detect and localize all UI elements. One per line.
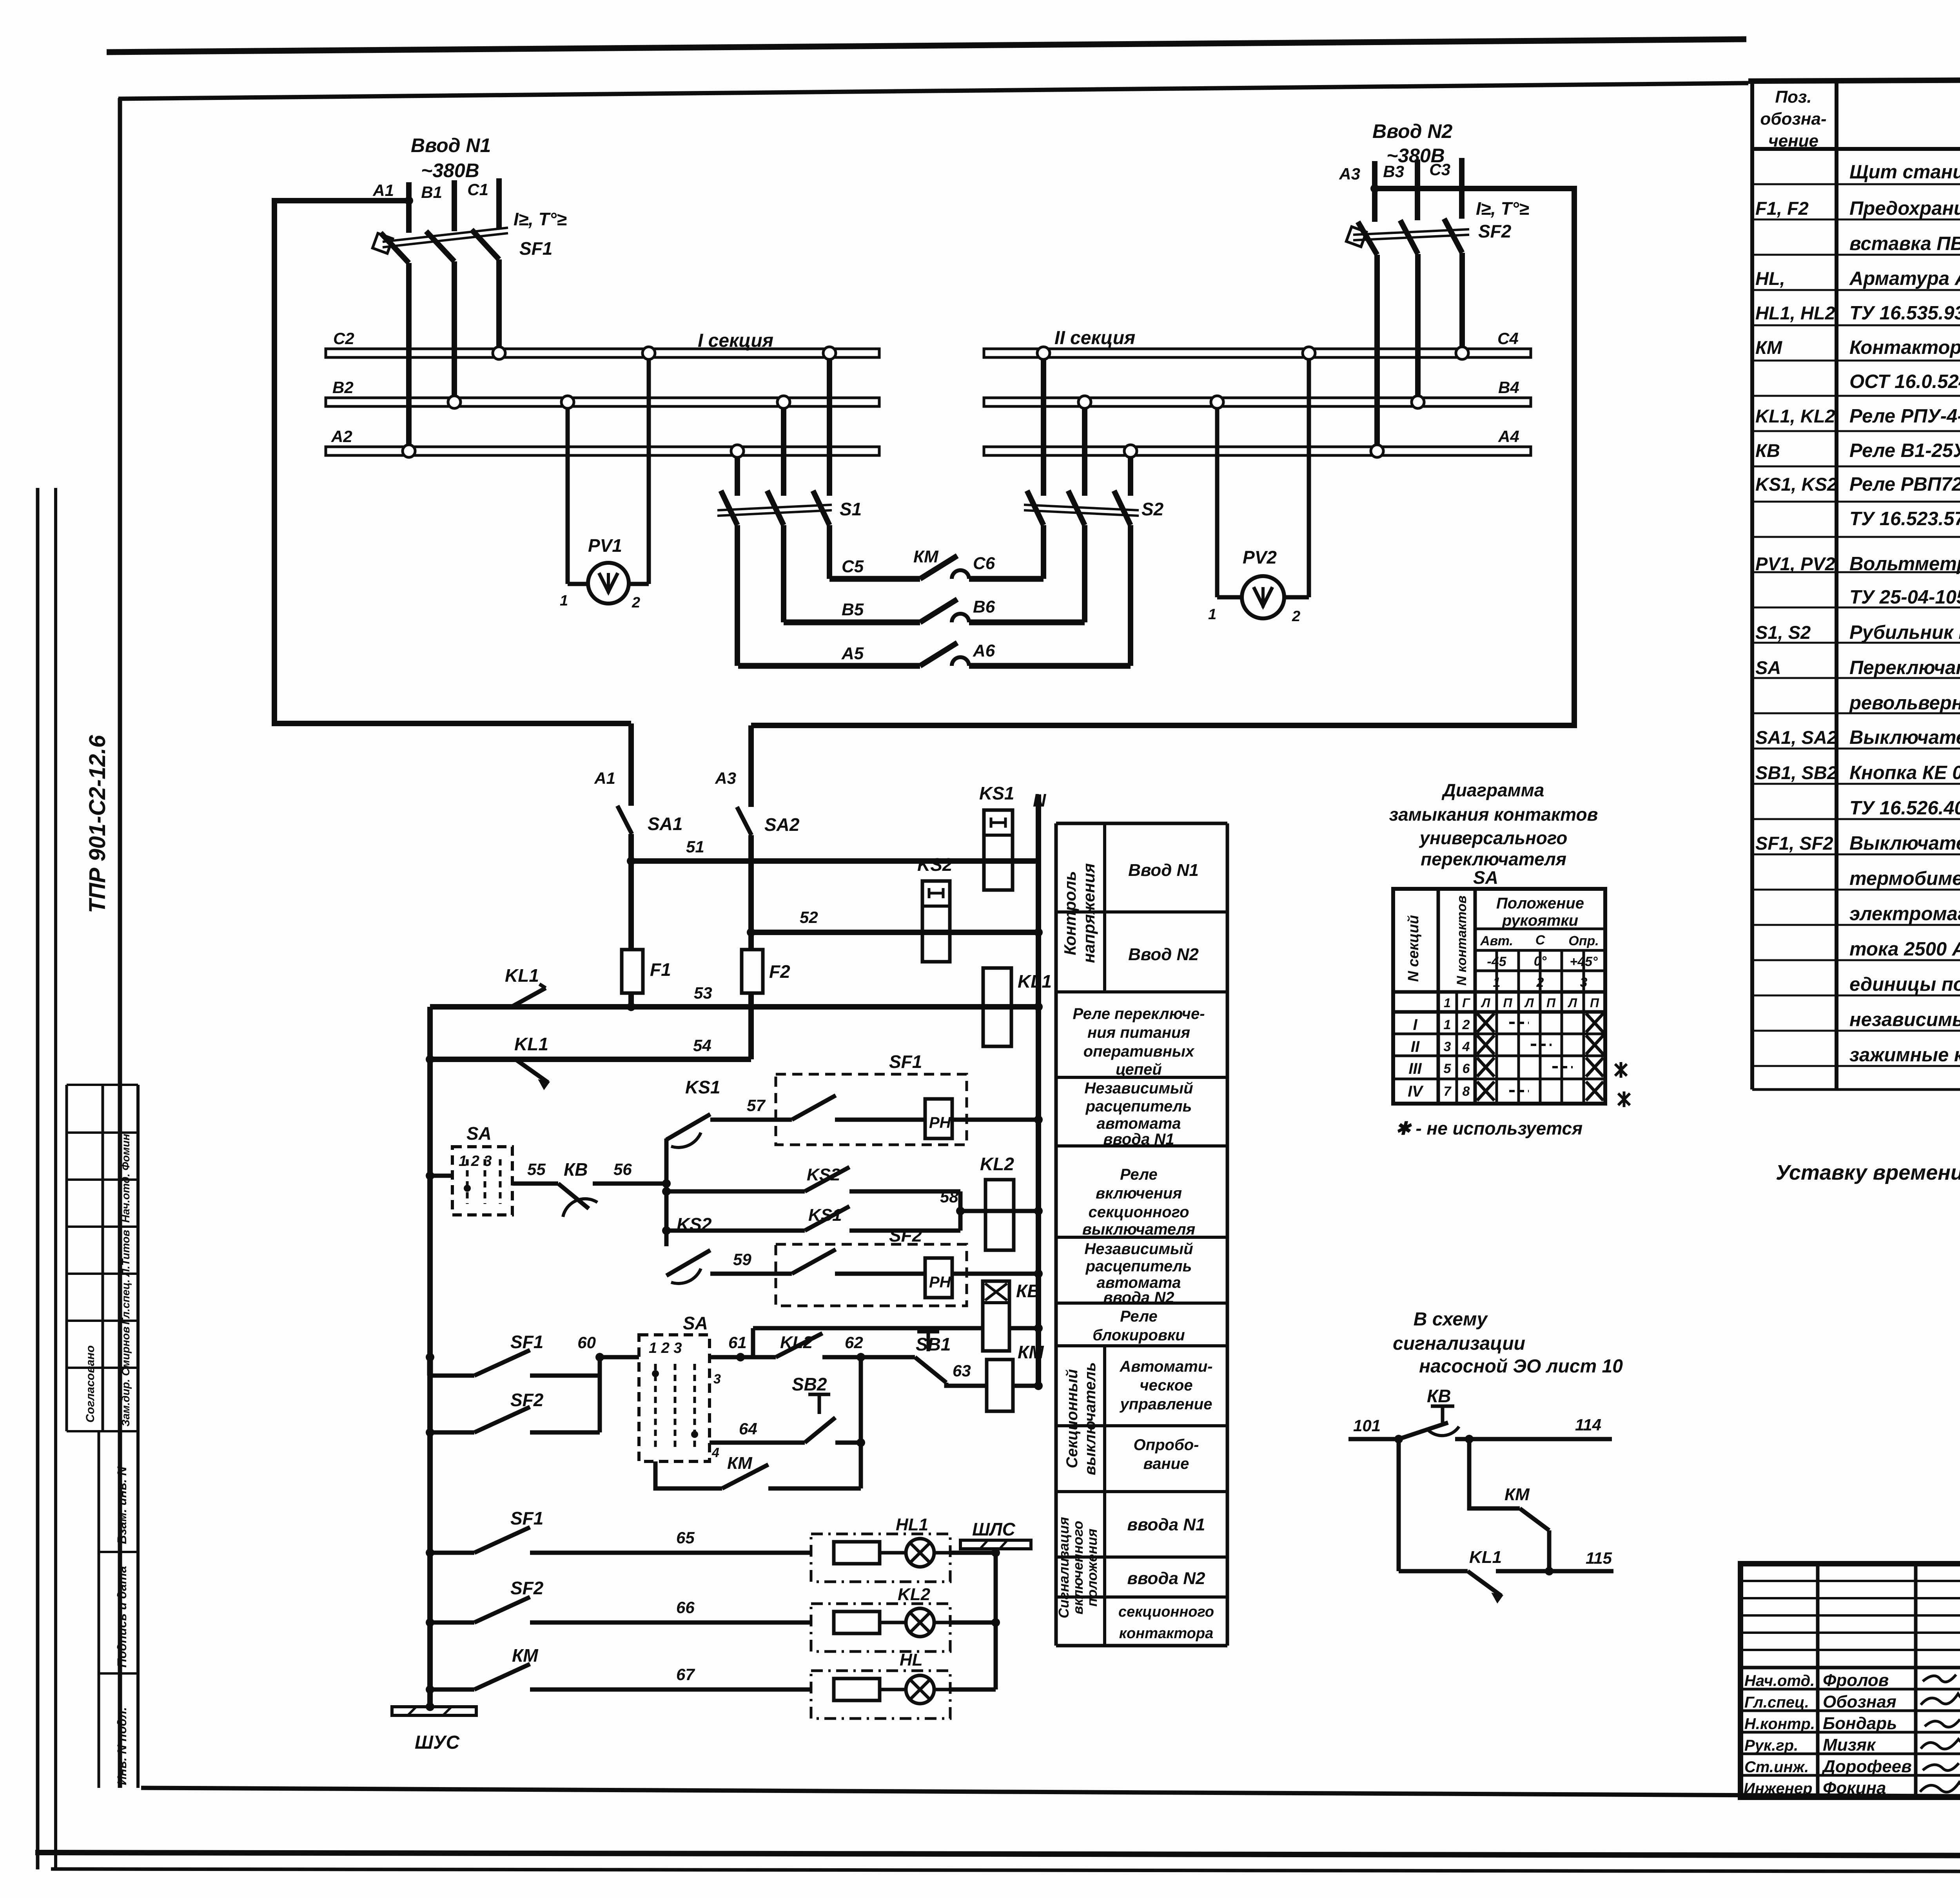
wire S1 pole outputs	[737, 525, 829, 666]
svg-text:РН: РН	[929, 1274, 951, 1291]
left margin small stamp table	[67, 1085, 138, 1788]
svg-text:секционного: секционного	[1088, 1204, 1189, 1221]
svg-text:электромагнитный расцепитель и: электромагнитный расцепитель и уставка	[1849, 903, 1960, 925]
svg-text:SA2: SA2	[764, 814, 800, 835]
svg-text:7: 7	[1444, 1084, 1452, 1099]
busbar B4 section II	[984, 378, 1531, 406]
svg-text:ввода N1: ввода N1	[1103, 1131, 1174, 1148]
svg-text:Диаграмма: Диаграмма	[1441, 780, 1544, 800]
title block outer box	[1740, 1564, 1960, 1797]
svg-text:HL: HL	[900, 1650, 923, 1670]
rotated label Сигнализация включенного положения	[1056, 1517, 1100, 1619]
svg-text:62: 62	[845, 1333, 863, 1352]
svg-text:3: 3	[1580, 975, 1588, 990]
function table row lines	[1056, 912, 1227, 1597]
svg-text:Автомати-: Автомати-	[1119, 1358, 1212, 1375]
svg-text:SB2: SB2	[792, 1374, 827, 1394]
svg-text:оперативных: оперативных	[1083, 1043, 1195, 1060]
svg-text:SA: SA	[1755, 657, 1781, 678]
svg-text:III: III	[1408, 1060, 1422, 1077]
svg-text:4: 4	[1462, 1039, 1470, 1054]
svg-text:А5: А5	[841, 644, 864, 663]
svg-text:Нач.отд.: Нач.отд.	[1744, 1672, 1815, 1690]
control bus ShUS	[392, 1702, 476, 1753]
wire SA2 to node 52 and fuse F2	[747, 835, 755, 950]
rung 65: contact SF1 to lamp HL1	[426, 1508, 811, 1557]
svg-text:ния питания: ния питания	[1087, 1024, 1190, 1041]
svg-text:S2: S2	[1142, 499, 1164, 519]
svg-text:SA1, SA2: SA1, SA2	[1755, 727, 1837, 748]
title block signatures squiggles	[1920, 1675, 1960, 1792]
selector switch SA block (lower)	[639, 1313, 721, 1461]
cell Ввод N1	[1128, 861, 1199, 880]
svg-text:F2: F2	[769, 961, 790, 982]
svg-text:KL1: KL1	[514, 1034, 548, 1054]
svg-text:Щит станций управления щсу: Щит станций управления щсу	[1849, 161, 1960, 183]
cell Опробование	[1134, 1436, 1199, 1472]
svg-text:SF2: SF2	[889, 1225, 922, 1245]
svg-text:I≥, Т°≥: I≥, Т°≥	[514, 209, 566, 229]
svg-text:SF1: SF1	[889, 1051, 922, 1072]
svg-text:Авт.: Авт.	[1480, 934, 1513, 948]
svg-text:Независимый: Независимый	[1084, 1080, 1193, 1097]
svg-text:II секция: II секция	[1054, 328, 1135, 348]
fuse F2	[742, 950, 790, 993]
left rail of ladder	[427, 1007, 433, 1707]
svg-text:KS2: KS2	[917, 854, 953, 875]
svg-text:рукоятки: рукоятки	[1502, 912, 1578, 929]
svg-text:KS2: KS2	[677, 1214, 712, 1235]
svg-text:КМ: КМ	[913, 547, 939, 566]
bridge rung B5-B6 with contactor KM pole	[784, 597, 1085, 622]
svg-text:цепей: цепей	[1116, 1061, 1162, 1078]
busbar A2 section I	[326, 427, 879, 455]
border: inner frame bottom line	[141, 1788, 1960, 1799]
svg-text:универсального: универсального	[1419, 828, 1568, 848]
relay coil KL1	[983, 968, 1052, 1046]
svg-text:ческое: ческое	[1140, 1377, 1192, 1394]
cell секционного контактора	[1118, 1604, 1214, 1642]
svg-text:KL1, KL2: KL1, KL2	[1755, 406, 1835, 426]
SA diagram footnote	[1396, 1118, 1583, 1138]
svg-text:А1: А1	[594, 769, 615, 787]
label Ввод N1 ~380В	[411, 134, 491, 181]
svg-text:59: 59	[733, 1250, 751, 1269]
switch SA2	[737, 807, 800, 835]
svg-text:PV1: PV1	[588, 535, 622, 556]
contact KL1 in signal circuit with node 115	[1399, 1548, 1613, 1601]
svg-text:SF2: SF2	[510, 1390, 544, 1410]
svg-text:58: 58	[940, 1187, 958, 1206]
svg-text:С3: С3	[1429, 160, 1450, 179]
wire phase A1 input	[372, 181, 409, 233]
svg-text:Реле: Реле	[1120, 1308, 1158, 1325]
SA diagram verticals	[1438, 889, 1584, 1104]
svg-text:А2: А2	[331, 427, 352, 446]
wire SF1 pole C to busbar C2	[496, 259, 502, 353]
rung 55-56 with time contact KB	[512, 1159, 671, 1217]
svg-text:56: 56	[613, 1160, 632, 1178]
svg-text:KL1: KL1	[1469, 1548, 1502, 1567]
svg-text:Независимый: Независимый	[1084, 1240, 1193, 1258]
parts table outer and column lines	[1748, 78, 1960, 1089]
SA diagram header Положение рукоятки	[1496, 895, 1584, 929]
svg-text:60: 60	[577, 1333, 596, 1352]
svg-text:KS1, KS2: KS1, KS2	[1755, 474, 1837, 495]
lamp module HL (resistor and lamp)	[811, 1650, 996, 1719]
cell Реле включения секционного выключателя	[1082, 1166, 1195, 1238]
wire phase C1 input	[467, 178, 499, 230]
svg-text:Ввод N2: Ввод N2	[1372, 120, 1453, 142]
svg-text:расцепитель: расцепитель	[1085, 1098, 1192, 1115]
svg-text:КМ: КМ	[512, 1645, 539, 1666]
svg-text:Реле В1-25У4, 220В, 50Гц, ТУ 1: Реле В1-25У4, 220В, 50Гц, ТУ 16.523.523-…	[1849, 440, 1960, 461]
wire phase B3 input	[1383, 160, 1417, 220]
svg-text:тока 2500 А, дополнительные с: тока 2500 А, дополнительные сборочные	[1849, 939, 1960, 960]
wire SA2 feed drop	[715, 725, 751, 807]
svg-text:Рубильник Р11-37320-00УЗ ТУ16: Рубильник Р11-37320-00УЗ ТУ16.525.005-74	[1849, 622, 1960, 643]
wire SA to node 61 and contact KL2	[710, 1333, 747, 1361]
svg-text:включенного: включенного	[1070, 1521, 1086, 1615]
svg-text:+45°: +45°	[1570, 954, 1598, 969]
svg-text:SA: SA	[683, 1313, 708, 1333]
svg-text:Уставку времени реле КВ, KS1,: Уставку времени реле КВ, KS1, KS2 принят…	[1776, 1161, 1960, 1184]
svg-text:101: 101	[1353, 1416, 1381, 1435]
svg-text:Фролов: Фролов	[1823, 1671, 1889, 1690]
wire phase C3 input	[1429, 158, 1462, 219]
contact KB in signal circuit	[1399, 1386, 1459, 1439]
wire branch down-left from node 101	[1397, 1439, 1401, 1571]
svg-text:выключателя: выключателя	[1082, 1221, 1195, 1238]
svg-text:Нач.отд. Фомин: Нач.отд. Фомин	[120, 1134, 132, 1223]
svg-text:KS1: KS1	[685, 1077, 720, 1097]
parallel contact KS1 to node 58	[662, 1206, 960, 1235]
node 58 and relay KL2	[940, 1187, 1043, 1231]
svg-text:SF1: SF1	[510, 1508, 543, 1528]
contact KM in signal circuit	[1469, 1439, 1553, 1575]
svg-text:KL1: KL1	[1018, 971, 1052, 992]
function table group dividers	[1103, 823, 1106, 1646]
svg-text:ТУ 16.523.574-74: ТУ 16.523.574-74	[1849, 508, 1960, 529]
cell Независимый расцепитель автомата ввода N2	[1084, 1240, 1193, 1306]
svg-text:Ввод N2: Ввод N2	[1128, 945, 1199, 964]
cell Реле переключения питания оперативных цепей	[1073, 1005, 1205, 1078]
svg-text:Опробо-: Опробо-	[1134, 1436, 1199, 1454]
svg-text:А3: А3	[1339, 165, 1360, 183]
svg-text:В2: В2	[332, 378, 354, 397]
SA diagram rotated headers	[1405, 896, 1469, 986]
svg-text:1 2 3: 1 2 3	[459, 1153, 492, 1169]
svg-text:1: 1	[1493, 975, 1501, 990]
svg-text:Арматура АС 120МУ2; ~220В: Арматура АС 120МУ2; ~220В	[1849, 268, 1960, 289]
border: top outer line	[107, 39, 1746, 52]
svg-text:В3: В3	[1383, 162, 1404, 181]
contact KL2 on rung 61-62	[740, 1333, 865, 1361]
dashed box SF2 with release coil RN	[776, 1225, 967, 1306]
svg-text:Л: Л	[1568, 996, 1577, 1010]
svg-text:выключатель: выключатель	[1082, 1362, 1099, 1476]
svg-text:2: 2	[632, 595, 640, 611]
svg-text:А3: А3	[715, 769, 736, 787]
cell Независимый расцепитель автомата ввода N1	[1084, 1080, 1193, 1148]
parts table content rows	[1755, 161, 1960, 1066]
svg-text:SA: SA	[1473, 867, 1498, 888]
svg-text:КВ: КВ	[564, 1159, 588, 1180]
svg-text:ТПР 901-С2-12.6: ТПР 901-С2-12.6	[85, 735, 110, 913]
circuit breaker SF2	[1346, 198, 1529, 255]
svg-text:секционного: секционного	[1118, 1604, 1214, 1620]
svg-text:IV: IV	[1408, 1083, 1424, 1100]
svg-text:Инв. N подл.: Инв. N подл.	[115, 1707, 129, 1785]
svg-text:115: 115	[1586, 1549, 1612, 1567]
svg-text:расцепитель: расцепитель	[1085, 1258, 1192, 1275]
wire right feed loop from A3 to ladder	[751, 184, 1574, 725]
svg-text:С6: С6	[973, 554, 995, 573]
svg-text:KS1: KS1	[979, 783, 1014, 803]
lamp module HL2 (resistor and lamp)	[811, 1585, 996, 1651]
voltmeter PV1 with leads	[560, 347, 655, 611]
contactor coil KM	[987, 1342, 1044, 1411]
cell ввода N1 (signal)	[1127, 1515, 1205, 1534]
label I секция	[698, 330, 773, 351]
svg-text:А6: А6	[973, 641, 995, 660]
svg-text:термобиметаллический расцепите: термобиметаллический расцепитель 368А	[1849, 868, 1960, 889]
bridge rung A5-A6 with contactor KM pole	[738, 641, 1131, 666]
svg-text:II: II	[1411, 1038, 1420, 1055]
knife switch S2	[1024, 347, 1164, 525]
SA diagram row I	[1413, 1013, 1603, 1033]
svg-text:замыкания контактов: замыкания контактов	[1389, 804, 1598, 825]
border: inner frame left vertical	[118, 98, 122, 1788]
signal bus ShLS	[960, 1519, 1031, 1553]
busbar C4 section II	[984, 329, 1531, 357]
wire S2 pole outputs	[1044, 525, 1131, 666]
svg-text:Согласовано: Согласовано	[84, 1345, 97, 1423]
svg-text:52: 52	[800, 908, 818, 926]
note: relay time setting text	[1776, 1161, 1960, 1184]
rung 67: contact KM to lamp HL	[426, 1645, 811, 1694]
svg-text:ввода N2: ввода N2	[1103, 1289, 1174, 1306]
svg-text:ввода N2: ввода N2	[1127, 1569, 1205, 1588]
wire SA1 to node 51 and fuse F1	[627, 834, 635, 950]
wire left feed loop from A1 to ladder	[274, 196, 631, 723]
title block thin upper rows	[1740, 1581, 1960, 1650]
svg-text:54: 54	[693, 1036, 711, 1055]
svg-text:SA1: SA1	[648, 814, 682, 834]
node N label and rail	[1033, 790, 1046, 1386]
busbar A4 section II	[984, 427, 1531, 455]
svg-text:Реле РПУ-4-368,220В, 50Гц, ТУ1: Реле РПУ-4-368,220В, 50Гц, ТУ16.523.534-…	[1849, 406, 1960, 427]
svg-text:С1: С1	[467, 180, 488, 199]
svg-text:переключателя: переключателя	[1421, 849, 1566, 869]
rung 57 through breaker SF1 release	[710, 1096, 1043, 1124]
wire SF2 pole A to busbar A4	[1374, 255, 1380, 451]
svg-text:Г: Г	[1462, 996, 1470, 1010]
svg-text:53: 53	[694, 984, 712, 1002]
svg-text:HL1, HL2: HL1, HL2	[1755, 303, 1835, 323]
svg-text:Предохранитель ПРС-20УЗ-П, пла: Предохранитель ПРС-20УЗ-П, плавкая	[1849, 198, 1960, 219]
svg-text:Ввод N1: Ввод N1	[411, 134, 491, 156]
svg-text:Реле переключе-: Реле переключе-	[1073, 1005, 1205, 1022]
svg-text:В6: В6	[973, 597, 995, 616]
SA diagram position headers	[1480, 933, 1599, 990]
svg-text:S1, S2: S1, S2	[1755, 622, 1811, 643]
svg-text:ввода N1: ввода N1	[1127, 1515, 1205, 1534]
parallel contact KS2 to node 58	[662, 1165, 960, 1196]
node 60 junction	[577, 1333, 604, 1432]
svg-text:Л: Л	[1524, 996, 1534, 1010]
svg-text:контактора: контактора	[1119, 1625, 1213, 1642]
svg-text:65: 65	[676, 1528, 695, 1547]
svg-text:Контроль: Контроль	[1061, 871, 1079, 955]
svg-text:SA: SA	[466, 1123, 492, 1144]
border: inner frame top line	[118, 83, 1748, 99]
svg-text:Инженер: Инженер	[1744, 1780, 1812, 1797]
knife switch S1	[717, 347, 862, 525]
wire node 62 vertical	[859, 1357, 863, 1488]
svg-text:KS2: KS2	[807, 1165, 840, 1184]
svg-text:SF2: SF2	[1478, 221, 1512, 241]
svg-text:5: 5	[1444, 1061, 1452, 1076]
contact SF1 aux to node 60	[426, 1332, 600, 1376]
svg-text:F1: F1	[650, 959, 671, 980]
svg-text:Подпись и дата: Подпись и дата	[115, 1566, 129, 1668]
svg-text:револьверного типа, ТУ 16.524: револьверного типа, ТУ 16.524.074-75	[1849, 692, 1960, 714]
SA diagram horizontals	[1393, 929, 1605, 1079]
svg-text:67: 67	[676, 1665, 695, 1684]
rung 51 to relay KS1	[631, 838, 1038, 861]
fuse F1	[622, 950, 671, 993]
SA diagram row II	[1411, 1035, 1603, 1055]
svg-text:КМ: КМ	[727, 1454, 753, 1473]
svg-text:PV2: PV2	[1243, 547, 1277, 567]
holding contact KM rung	[655, 1454, 861, 1488]
changeover time contact KS2 (lower)	[666, 1214, 712, 1283]
svg-text:3: 3	[713, 1372, 721, 1387]
relay coil KL2	[980, 1154, 1014, 1250]
svg-text:I≥, Т°≥: I≥, Т°≥	[1476, 198, 1529, 219]
parts table header texts	[1760, 87, 1960, 150]
svg-text:0°: 0°	[1534, 954, 1547, 969]
svg-text:KL2: KL2	[980, 1154, 1014, 1174]
svg-text:4: 4	[711, 1445, 719, 1460]
relay coil KB (blocking relay)	[753, 1281, 1043, 1357]
svg-text:ТУ 16.526.407-76: ТУ 16.526.407-76	[1849, 798, 1960, 819]
wire phase A3 input	[1339, 161, 1375, 222]
wire SF2 pole B to busbar B4	[1415, 254, 1421, 402]
svg-text:В4: В4	[1498, 378, 1519, 397]
svg-text:вание: вание	[1143, 1455, 1189, 1472]
svg-text:✱ - не используется: ✱ - не используется	[1396, 1118, 1583, 1138]
wire phase B1 input	[421, 180, 454, 231]
wire node 101 to 114	[1348, 1416, 1612, 1443]
svg-text:66: 66	[676, 1598, 695, 1617]
svg-text:Секционный: Секционный	[1063, 1369, 1081, 1468]
svg-text:КМ: КМ	[1018, 1342, 1044, 1362]
svg-text:ТУ 25-04-1058-74: ТУ 25-04-1058-74	[1849, 587, 1960, 608]
svg-text:51: 51	[686, 838, 704, 856]
parts table row lines	[1752, 184, 1960, 1089]
svg-text:Контактор КТ 6043 УЗ , 220В, 2: Контактор КТ 6043 УЗ , 220В, 23,2р	[1849, 337, 1960, 358]
svg-text:Рук.гр.: Рук.гр.	[1744, 1737, 1798, 1754]
contact SF2 aux to node 60	[426, 1390, 600, 1437]
svg-text:PV1, PV2: PV1, PV2	[1755, 553, 1835, 574]
wire SA1 feed drop	[594, 723, 631, 806]
svg-text:1 2 3: 1 2 3	[649, 1340, 682, 1356]
svg-text:КВ: КВ	[1427, 1386, 1451, 1406]
svg-text:ШУС: ШУС	[415, 1732, 460, 1753]
svg-text:8: 8	[1463, 1084, 1470, 1099]
cell Реле блокировки	[1093, 1308, 1185, 1344]
svg-text:63: 63	[953, 1361, 971, 1380]
svg-text:2: 2	[1462, 1017, 1470, 1032]
svg-text:55: 55	[527, 1160, 546, 1178]
svg-text:Зам.дир. Смирнов: Зам.дир. Смирнов	[120, 1327, 132, 1427]
svg-text:А4: А4	[1498, 427, 1519, 446]
svg-text:В5: В5	[842, 600, 864, 619]
svg-text:единицы по черт. N3 приложения: единицы по черт. N3 приложения N6 к ТУ,	[1849, 974, 1960, 995]
svg-text:зажимные колодки N16 ТУ 16.5: зажимные колодки N16 ТУ 16.522.028-74	[1849, 1044, 1960, 1066]
busbar C2 section I	[326, 329, 879, 357]
svg-text:I секция: I секция	[698, 330, 773, 351]
wire SF1 pole A to busbar A2	[406, 263, 412, 451]
rung 66: contact SF2 to lamp HL2	[426, 1578, 811, 1627]
svg-text:вставка ПВД1-16УЗ, ТУ 16.522.: вставка ПВД1-16УЗ, ТУ 16.522.011-74	[1849, 233, 1960, 254]
svg-text:I: I	[1413, 1016, 1417, 1033]
svg-text:включения: включения	[1096, 1185, 1182, 1202]
svg-text:ТУ 16.535.930-76: ТУ 16.535.930-76	[1849, 303, 1960, 324]
svg-text:-45: -45	[1487, 954, 1506, 969]
svg-text:блокировки: блокировки	[1093, 1327, 1185, 1344]
busbar B2 section I	[326, 378, 879, 406]
changeover time contact KS1 (upper)	[666, 1077, 720, 1246]
svg-text:В схему: В схему	[1414, 1309, 1488, 1330]
svg-text:S1: S1	[840, 499, 862, 519]
svg-text:Вольтметр Э377; предел измерен: Вольтметр Э377; предел измерения 0-500В	[1849, 553, 1960, 575]
note to signalling circuit	[1393, 1309, 1623, 1377]
svg-text:KL2: KL2	[898, 1585, 931, 1604]
svg-text:сигнализации: сигнализации	[1393, 1333, 1525, 1354]
svg-text:Н.контр.: Н.контр.	[1744, 1715, 1815, 1733]
svg-text:~380В: ~380В	[421, 160, 479, 181]
svg-text:N секций: N секций	[1405, 915, 1422, 982]
svg-text:Ст.инж.: Ст.инж.	[1744, 1758, 1809, 1776]
svg-text:3: 3	[1444, 1039, 1451, 1054]
svg-text:Сигнализация: Сигнализация	[1056, 1517, 1072, 1619]
svg-text:SB1, SB2: SB1, SB2	[1755, 762, 1837, 783]
svg-text:Взам. инв. N: Взам. инв. N	[115, 1466, 129, 1544]
svg-text:F1, F2: F1, F2	[1755, 198, 1809, 219]
switch SA1	[617, 806, 682, 834]
relay coil KS1 (time relay)	[979, 783, 1014, 890]
svg-text:С2: С2	[333, 329, 354, 348]
svg-text:Переключатель УП5313-С86; рук: Переключатель УП5313-С86; рукоятка	[1849, 657, 1960, 678]
svg-text:Реле РВП72-3222-00У4, ~220В,50: Реле РВП72-3222-00У4, ~220В,50Гц	[1849, 474, 1960, 495]
bridge rung C5-C6 with contactor KM pole	[829, 547, 1044, 579]
svg-text:Дорофеев: Дорофеев	[1821, 1757, 1912, 1776]
svg-text:независимый расцепитель 220В,: независимый расцепитель 220В, 50Гц,	[1849, 1009, 1960, 1030]
voltmeter PV2 with leads	[1208, 347, 1315, 625]
selector switch SA block (upper)	[426, 1123, 512, 1215]
circuit breaker SF1	[372, 209, 566, 263]
svg-text:Поз.: Поз.	[1775, 87, 1811, 107]
cell Ввод N2	[1128, 945, 1199, 964]
label Ввод N2 ~380В	[1372, 120, 1453, 167]
wire F2 to rung 54	[748, 993, 754, 1059]
svg-text:2: 2	[1536, 975, 1544, 990]
svg-text:обозна-: обозна-	[1760, 109, 1826, 129]
svg-text:П: П	[1546, 996, 1556, 1010]
